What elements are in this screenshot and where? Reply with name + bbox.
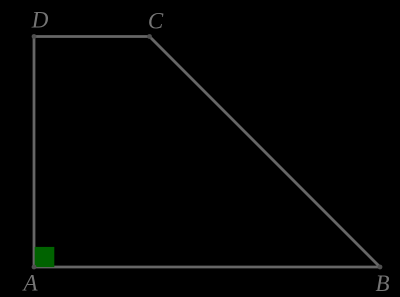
point A <box>32 265 37 270</box>
svg-text:A: A <box>21 271 38 296</box>
point D <box>32 34 37 39</box>
wire segment CB (slanted side) <box>150 37 381 268</box>
wire segment DC (top side) <box>34 35 150 38</box>
svg-text:B: B <box>375 271 389 296</box>
wire segment AB (bottom side) <box>34 266 380 269</box>
point B <box>378 265 383 270</box>
point C <box>147 34 152 39</box>
wire segment AD (left side) <box>33 37 36 268</box>
svg-text:D: D <box>31 8 49 33</box>
svg-text:C: C <box>148 9 164 34</box>
right-angle marker (green square) at A <box>35 247 55 267</box>
